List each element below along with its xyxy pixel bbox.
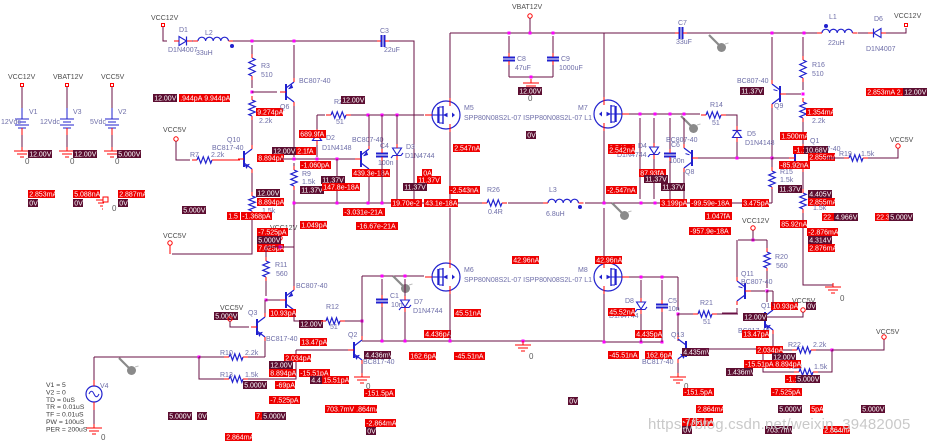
- R17 current label: [806, 108, 833, 116]
- svg-text:D5: D5: [747, 131, 756, 138]
- Q8 current label: [639, 169, 666, 177]
- svg-text:11.37V: 11.37V: [301, 188, 323, 195]
- resistor R2 51: [331, 112, 346, 118]
- M8 current label: [595, 256, 622, 264]
- wire V4 bottom: [93, 402, 95, 410]
- wire C3 right down to source bus: [389, 41, 414, 203]
- transistor Q1 BC817-40: [794, 150, 796, 166]
- wire VBAT to M5 drain: [449, 33, 451, 98]
- inductor L2 33uH: [198, 37, 228, 41]
- junction R15 top: [771, 157, 774, 160]
- junction C6 col: [669, 202, 672, 205]
- svg-text:0.4R: 0.4R: [488, 209, 503, 216]
- svg-text:VCC5V: VCC5V: [876, 329, 900, 336]
- resistor R15 1.5k: [769, 171, 775, 187]
- svg-text:4.4: 4.4: [311, 378, 321, 385]
- wire M6 source to gnd bus: [449, 294, 451, 341]
- junction R16: [803, 32, 806, 35]
- junction col D4: [639, 113, 642, 116]
- wire R17 to Q1: [802, 122, 804, 144]
- wire V2 bottom: [111, 135, 113, 148]
- svg-text:M8: M8: [578, 267, 588, 274]
- svg-text:12.00V: 12.00V: [744, 315, 767, 322]
- junction D3 bottom: [396, 202, 399, 205]
- svg-text:0V: 0V: [569, 399, 578, 406]
- pin stub: [279, 240, 281, 247]
- transistor Q8 BC807-40: [691, 150, 693, 166]
- svg-text:V3: V3: [73, 109, 82, 116]
- capacitor C6 100n: [669, 118, 671, 149]
- junction col Q8: [683, 113, 686, 116]
- svg-text:4.436mV: 4.436mV: [365, 353, 393, 360]
- svg-text:-69pA: -69pA: [276, 383, 295, 390]
- Q10 node voltage label: [272, 147, 296, 155]
- Q9 voltage label: [740, 87, 764, 95]
- wire to R11: [265, 247, 267, 258]
- pin VCC12V V1: [21, 84, 24, 87]
- svg-text:510: 510: [261, 72, 273, 79]
- wire V3 bottom: [66, 135, 68, 148]
- junction Q6 collector/R9: [293, 158, 296, 161]
- svg-text:D7: D7: [414, 299, 423, 306]
- svg-text:0: 0: [101, 433, 106, 442]
- junction zener col: [654, 202, 657, 205]
- MOSFET M8 SPP80N08S2L-07: [594, 263, 622, 291]
- svg-text:0: 0: [25, 157, 30, 166]
- junction R10/R13: [198, 356, 201, 359]
- svg-text:-45.51nA: -45.51nA: [455, 354, 484, 361]
- svg-text:0: 0: [70, 157, 75, 166]
- svg-text:-15.51pA: -15.51pA: [745, 362, 774, 369]
- junction Q4 collector: [367, 202, 370, 205]
- svg-text:13.47pA: 13.47pA: [301, 340, 327, 347]
- svg-text:D1N4007: D1N4007: [168, 47, 198, 54]
- junction R11/Q3/Q5 base: [265, 299, 268, 302]
- wire Q12 emitter to R22: [773, 349, 792, 351]
- L3 current label: [606, 186, 637, 194]
- svg-text:1.049pA: 1.049pA: [301, 223, 327, 230]
- V2 5Vdc source: [111, 108, 113, 119]
- svg-text:12.00V: 12.00V: [29, 152, 52, 159]
- svg-text:D1N4744: D1N4744: [405, 153, 435, 160]
- wire R4 to Q10 collector: [251, 120, 253, 145]
- svg-text:Q8: Q8: [685, 169, 694, 176]
- wire VCC5V to Q3 base: [230, 321, 249, 327]
- svg-text:85.92nA: 85.92nA: [781, 222, 807, 229]
- capacitor C1 10n: [381, 279, 383, 295]
- svg-text:4.435pA: 4.435pA: [636, 332, 662, 339]
- wire V2 top: [111, 87, 113, 108]
- wire down to R23: [818, 350, 832, 372]
- wire Q3 emitter down: [264, 341, 266, 357]
- resistor R16 510: [800, 60, 806, 78]
- svg-text:0V: 0V: [367, 429, 376, 436]
- capacitor C7 33uF: [680, 27, 683, 39]
- svg-text:R3: R3: [261, 63, 270, 70]
- svg-text:5Vdc: 5Vdc: [90, 119, 106, 126]
- pin VCC5V V2: [111, 84, 114, 87]
- svg-text:C9: C9: [561, 56, 570, 63]
- node R3/R4/Q6 base: [251, 91, 254, 94]
- svg-text:D8: D8: [625, 298, 634, 305]
- svg-text:-151.5pA: -151.5pA: [684, 390, 713, 397]
- resistor R18 1.5k: [800, 193, 806, 209]
- M6 gate bus: [362, 275, 424, 277]
- svg-text:5.000V: 5.000V: [890, 215, 913, 222]
- M6 current label: [454, 309, 481, 317]
- svg-text:12.00V: 12.00V: [270, 363, 293, 370]
- svg-text:22.: 22.: [823, 215, 833, 222]
- mid node voltage label: [526, 131, 536, 139]
- svg-text:D1N4148: D1N4148: [745, 140, 775, 147]
- wire node down to source bus: [336, 159, 338, 203]
- wire down to Q5 emitter: [293, 247, 295, 286]
- svg-text:2.547nA: 2.547nA: [454, 146, 480, 153]
- wire M5 source to bus: [449, 132, 451, 203]
- svg-text:VCC5V: VCC5V: [163, 233, 187, 240]
- svg-text:5.000V: 5.000V: [183, 208, 206, 215]
- MOSFET M5 SPP80N08S2L-07: [432, 101, 460, 129]
- svg-text:22uH: 22uH: [828, 40, 845, 47]
- wire col 640 gate to source bus: [639, 118, 641, 199]
- D8 current label: [608, 308, 635, 316]
- bottom-left labels: [168, 412, 192, 420]
- svg-text:C1: C1: [390, 293, 399, 300]
- junction C3 bottom: [413, 202, 416, 205]
- svg-text:SPP80N08S2L-07 ISPP80N08S2L-07: SPP80N08S2L-07 ISPP80N08S2L-07 L1: [464, 277, 592, 284]
- svg-text:42.96nA: 42.96nA: [596, 258, 622, 265]
- wire node to R10: [199, 356, 225, 358]
- wire R3 to node: [251, 80, 253, 88]
- svg-text:L2: L2: [205, 30, 213, 37]
- wire node down to Q13: [677, 314, 679, 341]
- svg-text:R21: R21: [700, 300, 713, 307]
- svg-text:47uF: 47uF: [515, 65, 531, 72]
- svg-text:4.435mV: 4.435mV: [683, 350, 711, 357]
- svg-text:5.000V: 5.000V: [118, 152, 141, 159]
- svg-text:R7: R7: [190, 152, 199, 159]
- junction M5/M6: [449, 202, 452, 205]
- svg-text:-7.525pA: -7.525pA: [772, 390, 801, 397]
- wire D6 to VCC12V pin: [886, 28, 906, 33]
- svg-text:2.2k: 2.2k: [813, 342, 827, 349]
- svg-text:R19: R19: [839, 151, 852, 158]
- resistor R23 1.5k: [799, 369, 813, 375]
- pin VCC5V Q12: [801, 308, 805, 312]
- wire node to R15: [771, 158, 773, 168]
- svg-text:R12: R12: [326, 304, 339, 311]
- svg-text:0: 0: [529, 352, 534, 361]
- svg-text:11.37V: 11.37V: [779, 187, 801, 194]
- wire D4 column: [653, 118, 655, 199]
- svg-text:1.354mA: 1.354mA: [807, 110, 835, 117]
- svg-text:4.314V: 4.314V: [809, 238, 832, 245]
- svg-text:5.000V: 5.000V: [258, 238, 281, 245]
- wire M7 source to bus: [603, 131, 605, 203]
- V2 voltage label: [117, 150, 141, 158]
- junction Q6 emitter: [293, 40, 296, 43]
- wire node to R9: [293, 163, 295, 166]
- R5 voltage label: [256, 189, 280, 197]
- wire V4 top: [93, 357, 95, 380]
- svg-text:R11: R11: [275, 262, 287, 269]
- D6 current label: [866, 88, 904, 96]
- transistor Q3 BC817-40: [256, 319, 258, 335]
- node current label: [300, 161, 331, 169]
- junction D4 col: [640, 202, 643, 205]
- svg-text:-7.525pA: -7.525pA: [270, 398, 299, 405]
- svg-text:7.: 7.: [256, 414, 262, 421]
- ground on bus: [522, 341, 524, 345]
- R18 voltage label: [808, 190, 832, 198]
- right driver current labels: [756, 346, 783, 354]
- gate bus M5: [351, 114, 424, 116]
- junction VBAT: [529, 32, 532, 35]
- V3 12Vdc source: [66, 108, 68, 119]
- VBAT rail: [450, 32, 604, 34]
- diode D6 D1N4007: [874, 29, 882, 38]
- svg-text:D1: D1: [179, 27, 188, 34]
- svg-text:11.37V: 11.37V: [645, 177, 667, 184]
- svg-text:D1N4148: D1N4148: [322, 145, 352, 152]
- svg-text:D4: D4: [638, 143, 647, 150]
- svg-text:C7: C7: [678, 20, 687, 27]
- svg-text:22uF: 22uF: [384, 47, 400, 54]
- wire R2 left: [317, 114, 325, 116]
- svg-text:45.52nA: 45.52nA: [609, 310, 635, 317]
- pin VCC12V top right: [905, 24, 908, 27]
- bottom current/voltage labels: [225, 433, 252, 441]
- svg-text:2.2k: 2.2k: [259, 118, 273, 125]
- junction C5 bottom: [661, 341, 664, 344]
- svg-text:BC807-40: BC807-40: [666, 137, 698, 144]
- probe marker gate bus: [681, 116, 692, 127]
- Q13 voltage label: [682, 348, 709, 356]
- Q2 voltage label: [364, 351, 391, 359]
- resistor R19 1.5k: [849, 155, 863, 161]
- svg-text:BC807-40: BC807-40: [737, 78, 769, 85]
- zener D8 glyph: [637, 302, 646, 309]
- svg-text:1000uF: 1000uF: [559, 65, 583, 72]
- wire Q8 collector to source bus: [683, 172, 685, 199]
- wire Q10 emitter to R5: [251, 173, 253, 192]
- junction C8: [508, 32, 511, 35]
- wire D3 bottom: [396, 160, 398, 203]
- junction D7 bottom: [404, 340, 407, 343]
- wire C7 to L1: [687, 32, 822, 34]
- svg-text:4.436pA: 4.436pA: [425, 332, 451, 339]
- ground under C8/C9: [530, 79, 532, 83]
- junction C5 top: [661, 276, 664, 279]
- svg-text:https://blog.csdn.net/weixin_3: https://blog.csdn.net/weixin_39482005: [648, 416, 911, 433]
- junction R12/Q2 collector: [361, 320, 364, 323]
- svg-text:5.000V: 5.000V: [169, 414, 192, 421]
- resistor R20 560: [764, 252, 770, 268]
- junction col zener: [654, 113, 657, 116]
- pin VBAT12V V3: [66, 84, 69, 87]
- resistor R4 2.2k: [249, 100, 255, 116]
- svg-text:560: 560: [276, 271, 288, 278]
- resistor R11 560: [263, 261, 269, 277]
- R15 voltage label: [778, 185, 802, 193]
- junction Q4 emitter: [367, 114, 370, 117]
- Q4 current label: [352, 169, 390, 177]
- wire V1 bottom: [21, 135, 23, 148]
- wire rail to R16: [802, 37, 804, 56]
- svg-text:Q3: Q3: [248, 310, 257, 317]
- M7 current label: [608, 144, 635, 152]
- junction Q9 emitter: [771, 32, 774, 35]
- wire Q11 base to node: [751, 290, 765, 292]
- pin VCC5V Q3: [228, 317, 232, 321]
- wire R19 to VCC5V: [868, 148, 898, 158]
- diode D8 D1N4744: [640, 280, 642, 300]
- svg-text:439.3e-18A: 439.3e-18A: [353, 171, 390, 178]
- transistor Q13 BC817-40: [685, 341, 687, 357]
- probe marker top rail: [709, 35, 720, 46]
- diode D2 D1N4148: [313, 134, 322, 141]
- svg-text:100n: 100n: [669, 158, 685, 165]
- svg-text:11.37V: 11.37V: [662, 185, 684, 192]
- wire Q13 base right: [692, 348, 763, 350]
- svg-text:1.047fA: 1.047fA: [706, 214, 730, 221]
- svg-text:19.70e-2: 19.70e-2: [392, 201, 420, 208]
- wire V4 to R10/R13 node: [94, 356, 199, 358]
- capacitor C8 47uF: [508, 36, 510, 53]
- node wire D2/Q4 base: [281, 158, 357, 160]
- Q2 current label: [364, 389, 395, 397]
- wire R16 to node: [802, 82, 804, 90]
- R26 body: [487, 200, 502, 206]
- svg-text:2.887mA: 2.887mA: [119, 192, 147, 199]
- wire V4 to ground: [93, 410, 95, 426]
- svg-text:12Vdc: 12Vdc: [1, 119, 21, 126]
- wire C5 bottom: [661, 312, 663, 342]
- svg-text:1.5: 1.5: [228, 214, 238, 221]
- svg-text:C3: C3: [380, 28, 389, 35]
- resistor R14 51: [706, 112, 721, 118]
- resistor R9 1.5k: [291, 170, 297, 186]
- svg-text:M7: M7: [578, 105, 588, 112]
- svg-text:L3: L3: [549, 187, 557, 194]
- junction R16/R17/Q9: [802, 93, 805, 96]
- svg-text:-2.543nA: -2.543nA: [450, 188, 479, 195]
- Q12 current label: [771, 302, 798, 310]
- wire to R19: [826, 157, 845, 159]
- svg-text:560: 560: [776, 263, 788, 270]
- svg-text:12.00V: 12.00V: [342, 98, 365, 105]
- junction R9 column: [293, 202, 296, 205]
- transistor Q4 BC807-40: [360, 151, 362, 167]
- driver current labels: [284, 354, 311, 362]
- svg-text:15.51pA: 15.51pA: [323, 378, 349, 385]
- small ground symbol 0V reference: [103, 197, 108, 202]
- pin VCC5V lower: [168, 241, 172, 245]
- resistor R10 2.2k: [229, 354, 243, 360]
- cap ground voltage label: [518, 87, 542, 95]
- wire R23 left to Q13 base node: [763, 349, 794, 372]
- svg-text:V2: V2: [118, 109, 127, 116]
- svg-text:13.47pA: 13.47pA: [743, 332, 769, 339]
- input current labels: [153, 94, 177, 102]
- svg-text:1.436mV: 1.436mV: [727, 370, 755, 377]
- junction R21/Q13: [677, 313, 680, 316]
- svg-text:-1.060pA: -1.060pA: [301, 163, 330, 170]
- wire Q9 base to R16/R17 node: [786, 93, 801, 95]
- wire Q11 collector to R21: [722, 308, 737, 313]
- C6 plates: [664, 154, 676, 157]
- svg-text:-16.67e-21A: -16.67e-21A: [357, 224, 396, 231]
- wire Q12 emitter down: [772, 334, 774, 350]
- junction D2 bottom: [316, 158, 319, 161]
- junction VCC12V right: [752, 239, 755, 242]
- svg-text:2.542nA: 2.542nA: [609, 148, 635, 155]
- wire node to R13: [199, 357, 225, 379]
- wire VCC12V node: [266, 246, 294, 248]
- wire R15 to source bus: [771, 189, 773, 203]
- junction M6 source: [449, 340, 452, 343]
- svg-text:D1N4744: D1N4744: [413, 308, 443, 315]
- L3 body: [548, 199, 578, 203]
- pin VBAT12V: [528, 14, 532, 18]
- current labels on source bus: [391, 199, 422, 207]
- C1 current label: [424, 330, 451, 338]
- junction node stub: [336, 202, 339, 205]
- ground under Q2: [361, 373, 363, 377]
- wire Q9 collector down: [771, 108, 773, 158]
- svg-text:SPP80N08S2L-07 ISPP80N08S2L-07: SPP80N08S2L-07 ISPP80N08S2L-07 L1: [464, 115, 592, 122]
- svg-text:51: 51: [336, 119, 344, 126]
- zener D4 D1N4744: [650, 147, 659, 154]
- svg-text:5.000V: 5.000V: [215, 314, 238, 321]
- ground bus: [362, 341, 604, 343]
- wire node to Q12 collector: [766, 291, 768, 302]
- svg-text:0V: 0V: [119, 201, 128, 208]
- resistor R3 510: [249, 58, 255, 76]
- wire M8 source to gnd bus: [603, 294, 605, 343]
- wire Q3 collector to node: [264, 300, 266, 313]
- svg-text:R9: R9: [302, 171, 311, 178]
- overlapped current label Q1: [793, 146, 810, 154]
- svg-text:11.37V: 11.37V: [404, 185, 426, 192]
- svg-text:BC807-40: BC807-40: [741, 279, 773, 286]
- junction Q8 col: [683, 202, 686, 205]
- wire rail to R3: [251, 45, 253, 54]
- wire M8 drain from bus: [603, 208, 605, 260]
- svg-text:2.2k: 2.2k: [812, 118, 826, 125]
- inductor L1 22uH: [822, 29, 852, 33]
- svg-text:D2: D2: [326, 135, 335, 142]
- svg-text:0: 0: [112, 204, 117, 213]
- svg-text:3.199pA: 3.199pA: [661, 201, 687, 208]
- svg-text:2.864mA: 2.864mA: [226, 435, 254, 442]
- svg-text:-151.5pA: -151.5pA: [365, 391, 394, 398]
- junction stub to source bus: [336, 158, 339, 161]
- wire Q6 base connection: [252, 91, 277, 93]
- diode D5 D1N4148: [733, 131, 742, 138]
- svg-text:D6: D6: [874, 16, 883, 23]
- junction cap gnd: [530, 76, 533, 79]
- svg-text:VCC5V: VCC5V: [101, 74, 125, 81]
- svg-text:-85.92nA: -85.92nA: [780, 163, 809, 170]
- ground under V3: [66, 147, 68, 151]
- wire Q4 emitter to gate bus: [368, 115, 370, 146]
- Q1 collector current: [780, 132, 807, 140]
- wire D5 down: [736, 142, 738, 158]
- svg-text:43.1e-18A: 43.1e-18A: [425, 201, 458, 208]
- resistor R5 1.5k: [249, 196, 255, 211]
- svg-text:VCC5V: VCC5V: [890, 137, 914, 144]
